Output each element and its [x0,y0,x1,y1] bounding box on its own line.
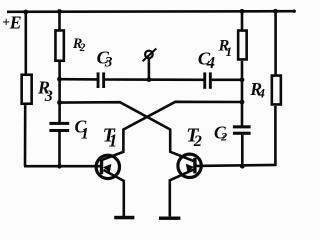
wire coupling line left to C3 [60,78,98,81]
svg-text:2: 2 [193,131,202,150]
transistor T2 circle [178,154,201,177]
node dot rail right end [293,10,296,13]
node dot R2-coupling [57,100,62,105]
transistor T2 emitter arrow [186,164,194,172]
capacitor C2 plates [233,125,251,128]
resistor R2 [55,30,63,60]
svg-text:3: 3 [104,55,113,71]
wire bottom-right base line T2 [196,165,276,166]
wire R2 top lead [58,12,61,30]
wire C3 to C4 [105,78,204,81]
wire C2 bottom lead [241,135,244,167]
wire R1 top lead [241,11,244,29]
svg-text:3: 3 [44,88,53,105]
node dot output [147,77,152,82]
ground T1 [114,216,134,220]
node dot rail-R1 [240,9,245,14]
resistor R1 [238,31,247,60]
wire top +E rail [7,10,295,13]
transistor T1 circle [96,155,119,178]
node dot R2-C3 [57,77,62,82]
wire C4 to R1 line [211,79,242,82]
svg-text:4: 4 [257,86,265,101]
transistor T2 emitter lead [170,170,194,217]
capacitor C4 plates [203,72,206,88]
node dot C2-base [240,164,245,169]
node dot rail-R2 [57,9,62,14]
node dot rail-R3 [23,10,28,15]
capacitor C3 plates [97,72,100,88]
ground T2 [159,217,180,220]
node dot R1-C4 [240,77,245,82]
node dot C1-base [57,164,62,169]
capacitor C1 plates [49,122,69,125]
wire R4 top lead [274,11,277,74]
wire output stem [148,59,151,80]
wire cross-coupling right node to T1 collector [103,102,242,160]
svg-text:2: 2 [79,42,86,54]
wire left vertical to R3 [24,12,27,75]
wire C1 bottom lead [58,132,61,166]
svg-text:2: 2 [220,130,227,144]
resistor R4 [272,76,281,105]
transistor T1 emitter lead [104,170,124,216]
svg-text:E: E [9,13,22,33]
node dot R1-coupling [240,100,245,105]
transistor T1 base bar [100,158,103,174]
wire R1 bottom to C2 [241,61,244,126]
output terminal slash [143,49,157,62]
output terminal circle [145,51,153,59]
svg-text:1: 1 [109,131,118,151]
svg-text:1: 1 [226,44,233,59]
wire cross-coupling left node to T2 collector [60,102,194,161]
transistor T1 emitter arrow [103,164,111,172]
wire right vertical below R4 [274,106,277,166]
svg-text:1: 1 [81,126,89,143]
wire R2 bottom to C1 [58,62,61,122]
node dot rail-R4 [273,9,278,14]
resistor R3 [22,75,32,104]
wire R3 bottom to base line [24,105,27,166]
transistor T2 base bar [193,158,196,174]
wire bottom-left base line T1 [24,165,101,168]
svg-text:4: 4 [206,53,215,72]
